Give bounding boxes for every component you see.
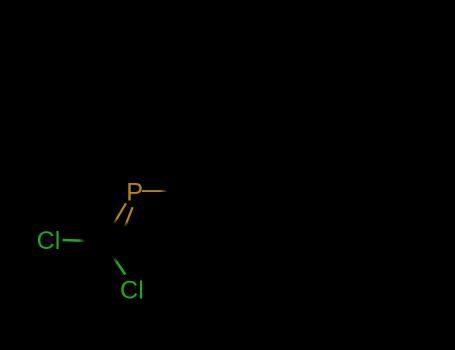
svg-text:Cl: Cl — [37, 227, 61, 255]
bond C-Cl left half segment — [63, 239, 86, 242]
svg-text:P: P — [126, 179, 143, 207]
double bond P=C line 2 — [125, 207, 133, 227]
bond P-C(aryl) half segment — [142, 190, 168, 192]
double bond P=C line 1 — [114, 203, 126, 224]
bond C-Cl bottom half segment — [113, 257, 125, 274]
svg-text:Cl: Cl — [120, 276, 144, 304]
